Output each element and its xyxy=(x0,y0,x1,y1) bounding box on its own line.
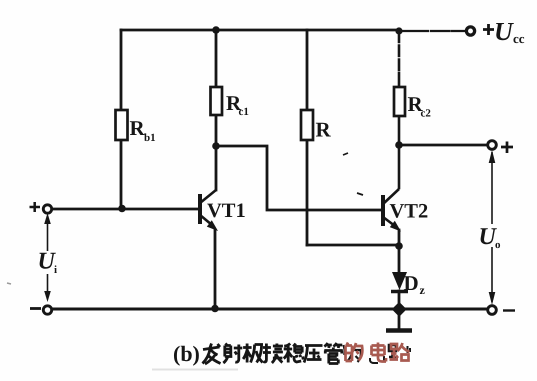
svg-text:o: o xyxy=(495,239,501,251)
terminal input minus xyxy=(43,306,51,314)
svg-text:cc: cc xyxy=(513,31,525,46)
caption char ya xyxy=(304,346,323,363)
junction Rc2 bottom / output xyxy=(395,141,403,149)
caption char fa xyxy=(203,344,221,365)
label Dz xyxy=(404,271,426,297)
junction Rc1 bottom / VT1 collector xyxy=(212,142,220,150)
caption char ji xyxy=(243,344,263,363)
wire VT1 collector to VT2 base link xyxy=(216,146,381,210)
svg-text:D: D xyxy=(404,271,419,295)
svg-text:VT2: VT2 xyxy=(390,201,429,223)
wire zener to bottom rail xyxy=(398,291,401,309)
wire Rc2 branch vertical xyxy=(398,31,401,188)
Uo measurement arrow xyxy=(489,150,496,305)
svg-text:i: i xyxy=(54,264,57,276)
transistor VT2 xyxy=(383,189,401,232)
svg-text:c1: c1 xyxy=(239,106,249,118)
resistor R xyxy=(301,110,313,140)
caption red char dian xyxy=(372,343,387,362)
wire bottom rail xyxy=(47,308,489,311)
zener diode Dz xyxy=(391,272,408,292)
svg-text:b1: b1 xyxy=(144,132,156,144)
junction top rail / Rc1 xyxy=(212,26,220,34)
stray scan mark 3 xyxy=(343,153,348,155)
terminal +Ucc xyxy=(466,27,474,35)
label +Ucc xyxy=(483,17,525,46)
caption char guan xyxy=(324,343,343,364)
terminal output plus xyxy=(488,141,497,150)
svg-text:(b): (b) xyxy=(173,341,200,366)
stray scan mark 1 xyxy=(357,193,363,195)
caption black remnant under dian xyxy=(370,356,384,363)
svg-text:z: z xyxy=(420,283,426,297)
caption char she xyxy=(223,344,242,364)
transistor VT1 xyxy=(200,190,218,231)
wire Rc1 branch vertical xyxy=(215,30,218,190)
wire zener node down to zener xyxy=(398,246,401,273)
wire R bottom to VT2 emitter node xyxy=(307,244,399,247)
wire VT1 emitter down xyxy=(214,230,217,308)
wire top rail right section to +Ucc terminal xyxy=(399,30,466,32)
resistor Rc2 xyxy=(394,87,405,116)
svg-text:c2: c2 xyxy=(421,108,432,120)
caption char wen xyxy=(284,344,304,363)
wire input plus to VT1 base xyxy=(52,208,198,211)
label output minus sign xyxy=(503,309,515,311)
terminal output minus xyxy=(488,306,497,315)
svg-text:R: R xyxy=(316,118,332,142)
label input minus sign xyxy=(30,307,41,310)
junction VT2 emitter / R / zener xyxy=(395,242,403,250)
svg-text:VT1: VT1 xyxy=(207,200,246,222)
wire VT2 emitter to zener node xyxy=(398,230,401,246)
label Ui xyxy=(38,249,58,277)
ground xyxy=(386,309,412,331)
label input plus sign xyxy=(30,202,41,212)
wire Rc2 bottom to output plus xyxy=(399,144,489,147)
junction top rail / Rc2 xyxy=(395,27,402,34)
label Rc1 xyxy=(226,91,249,118)
label output plus sign xyxy=(501,142,513,154)
junction VT1 emitter / bottom rail xyxy=(211,305,219,313)
wire top rail left section xyxy=(121,29,399,32)
label Rb1 xyxy=(130,116,156,144)
caption char jie xyxy=(263,344,283,364)
resistor Rc1 xyxy=(211,87,223,115)
junction input line / Rb1 xyxy=(118,205,126,213)
junction zener / bottom rail / ground xyxy=(392,302,407,317)
caption black remnant strokes under de xyxy=(344,345,361,362)
svg-text:U: U xyxy=(494,17,514,46)
stray scan mark 2 xyxy=(7,283,11,284)
label Rc2 xyxy=(408,92,432,120)
wire R branch vertical xyxy=(306,30,309,245)
Ui measurement arrow xyxy=(44,213,51,302)
label Uo xyxy=(479,224,502,251)
caption black tick right of red text xyxy=(408,346,411,353)
scan smear under caption xyxy=(152,369,238,371)
caption red char de xyxy=(346,343,363,362)
terminal input plus xyxy=(43,205,51,213)
wire left branch vertical (Rb1 branch) xyxy=(120,30,123,207)
resistor Rb1 xyxy=(116,110,128,140)
caption black remnant blob left of lu xyxy=(389,345,396,357)
caption red char lu xyxy=(390,343,410,361)
